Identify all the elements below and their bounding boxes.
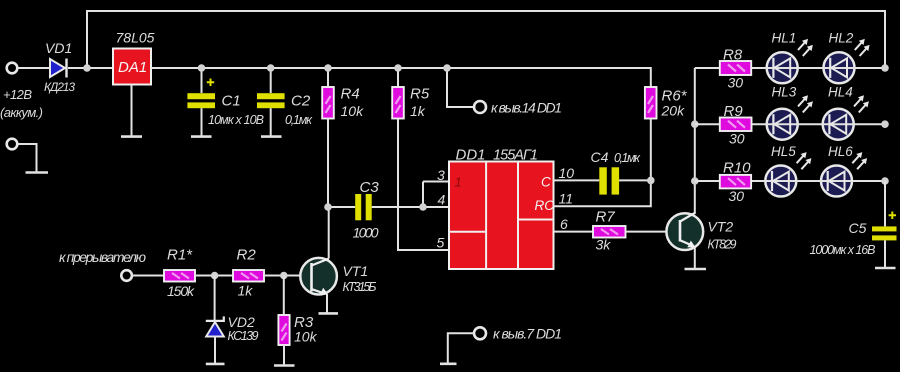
ground (X2) (26, 171, 49, 174)
svg-text:10k: 10k (294, 329, 318, 345)
svg-text:1k: 1k (410, 103, 426, 119)
ground (VD2) (206, 363, 225, 366)
svg-text:11: 11 (559, 191, 574, 207)
ground (C1) (191, 135, 212, 138)
LED HL1 symbol (772, 31, 813, 78)
svg-text:1000мк x 16В: 1000мк x 16В (810, 243, 876, 257)
wire: X1 to VD1 (18, 67, 50, 69)
svg-text:150k: 150k (167, 283, 195, 299)
resistor R6* 20k (645, 87, 688, 180)
zener diode VD2 КС139 (206, 276, 259, 364)
node: R2/R3/VT1 base junction (280, 272, 288, 280)
wire: pin 10 to C4 (554, 179, 600, 181)
node: R4/VT1/C3 junction (324, 203, 332, 211)
ground (R3) (274, 364, 295, 367)
svg-text:30: 30 (729, 131, 745, 147)
svg-text:3: 3 (437, 167, 445, 183)
svg-text:HL2: HL2 (829, 31, 854, 46)
terminal X1 +12V input (0, 63, 43, 120)
node: C2 junction (267, 64, 275, 72)
wire: C4 to R6/pin11 node (619, 179, 651, 181)
svg-text:1000: 1000 (353, 225, 379, 241)
svg-text:R9: R9 (724, 103, 744, 120)
capacitor C5 1000мк x 16В (810, 212, 897, 269)
svg-text:30: 30 (728, 75, 744, 91)
svg-text:R5: R5 (410, 86, 430, 103)
svg-text:C: C (541, 175, 551, 190)
svg-text:10: 10 (559, 165, 575, 181)
svg-text:10мк x 10В: 10мк x 10В (208, 113, 264, 127)
wire: pin 6 to R7 (554, 231, 594, 233)
node: R5 junction (394, 64, 402, 72)
node: C1 junction (198, 64, 206, 72)
terminal: к выв.7 DD1 (448, 326, 562, 364)
LED HL4 (823, 109, 854, 140)
resistor R5 1k (392, 68, 449, 250)
svg-text:R1*: R1* (167, 247, 193, 264)
svg-text:VT1: VT1 (343, 263, 369, 279)
svg-text:0,1мк: 0,1мк (285, 113, 313, 127)
terminal X2 (negative) (7, 139, 37, 173)
ground (VT2) (685, 268, 707, 271)
diode VD1 КД213 (44, 40, 75, 94)
node: right bus row1 (881, 64, 889, 72)
resistor R7 3k (593, 209, 667, 253)
LED HL2 symbol (829, 31, 870, 78)
svg-text:к выв.14 DD1: к выв.14 DD1 (491, 100, 562, 116)
svg-text:C3: C3 (360, 179, 380, 196)
wire: VD1 to DA1 (68, 67, 113, 69)
IC DD1 155АГ1 (449, 147, 554, 270)
svg-text:HL6: HL6 (828, 144, 853, 159)
ground (pin7 wire) (440, 362, 457, 365)
svg-text:5: 5 (437, 235, 445, 251)
svg-text:1: 1 (455, 175, 462, 190)
svg-text:20k: 20k (661, 103, 686, 119)
svg-text:КТ315Б: КТ315Б (343, 280, 377, 294)
node: bus row2 junction (691, 120, 699, 128)
node: R1/R2/VD2 junction (211, 272, 219, 280)
svg-text:к прерывателю: к прерывателю (59, 249, 146, 265)
svg-text:1k: 1k (238, 283, 254, 299)
node: pin14 junction (443, 64, 451, 72)
svg-text:(аккум.): (аккум.) (0, 105, 43, 120)
svg-text:78L05: 78L05 (116, 30, 155, 46)
svg-text:КТ829: КТ829 (708, 238, 737, 252)
capacitor C4 0,1мк (591, 149, 642, 195)
svg-text:R2: R2 (237, 247, 257, 264)
ground (C5) (875, 267, 896, 270)
capacitor C2 0,1мк (257, 68, 313, 137)
svg-text:HL4: HL4 (828, 85, 853, 100)
LED HL6 (821, 166, 852, 197)
svg-text:DA1: DA1 (118, 59, 147, 76)
terminal: к выв.14 DD1 (447, 68, 562, 116)
node: pin3/4 junction (419, 203, 427, 211)
node: junction VD1/top-rail (83, 64, 91, 72)
node: R6/C4/pin11 junction (647, 177, 655, 185)
resistor R4 10k (322, 68, 364, 207)
resistor R9 30 (720, 103, 752, 147)
resistor R3 10k (278, 276, 317, 366)
LED HL5 (765, 166, 796, 197)
wire: row 3 (695, 180, 885, 182)
svg-text:RC: RC (535, 198, 555, 213)
ground (VT1) (319, 312, 339, 315)
svg-text:R7: R7 (596, 209, 616, 226)
svg-text:30: 30 (729, 188, 745, 204)
node: R4 junction (324, 64, 332, 72)
resistor R10 30 (720, 160, 751, 205)
svg-text:HL3: HL3 (772, 85, 797, 100)
wire: LED left bus / VT2 collector (694, 68, 696, 214)
svg-text:C2: C2 (291, 93, 311, 110)
svg-text:0,1мк: 0,1мк (614, 151, 641, 165)
wire: C3 to DD1 pins 3/4 (372, 182, 449, 208)
wire: row 2 (695, 123, 885, 125)
svg-text:+12В: +12В (3, 87, 32, 102)
LED HL3 symbol (772, 85, 813, 135)
wire: right bus down to C5 (884, 181, 886, 226)
wire: top +12V rail (87, 11, 885, 68)
wire: signal line R4/VT1 to C3 (328, 206, 355, 208)
wire: pin 11 to node (554, 180, 651, 206)
wire: DA1 ground lead (131, 85, 133, 137)
svg-text:VD2: VD2 (228, 314, 255, 330)
node: right bus row2 (881, 120, 889, 128)
svg-text:R8: R8 (723, 47, 743, 64)
svg-text:HL5: HL5 (771, 144, 796, 159)
svg-text:6: 6 (560, 216, 568, 232)
wire: VT1 emitter lead (326, 294, 328, 313)
transistor VT1 КТ315Б (300, 258, 376, 295)
svg-text:4: 4 (438, 192, 446, 208)
svg-text:3k: 3k (596, 237, 612, 253)
voltage regulator DA1 78L05 (113, 30, 155, 85)
ground (DA1) (121, 135, 142, 138)
LED HL6 symbol (828, 144, 867, 191)
svg-text:10k: 10k (341, 103, 365, 119)
node: bus row3 junction (691, 177, 699, 185)
svg-text:R4: R4 (341, 86, 360, 103)
ground (C2) (261, 135, 282, 138)
LED HL4 symbol (828, 85, 869, 135)
LED HL5 symbol (771, 144, 811, 191)
terminal: к прерывателю (59, 249, 164, 281)
svg-text:R10: R10 (723, 160, 751, 177)
svg-text:КС139: КС139 (228, 329, 259, 343)
wire: VT1 collector riser (328, 207, 330, 259)
svg-text:C4: C4 (591, 149, 609, 165)
LED HL1 (767, 52, 798, 83)
node: right bus row3 (881, 177, 889, 185)
capacitor C3 1000 (353, 179, 380, 241)
LED HL2 (824, 52, 855, 83)
transistor VT2 КТ829 (666, 212, 736, 251)
resistor R1* 150k (164, 247, 233, 300)
svg-text:VT2: VT2 (708, 219, 734, 235)
resistor R2 1k (233, 247, 301, 299)
capacitor C1 10мк x 10В (187, 68, 264, 137)
wire: VT2 emitter lead (694, 248, 696, 270)
wire: row 1 (695, 67, 885, 69)
svg-text:к выв.7 DD1: к выв.7 DD1 (493, 326, 562, 342)
svg-text:КД213: КД213 (44, 80, 75, 94)
svg-text:C1: C1 (222, 93, 241, 110)
wire: +5V rail from DA1 to R6 (151, 68, 651, 87)
svg-text:HL1: HL1 (772, 31, 797, 46)
resistor R8 30 (720, 47, 751, 91)
svg-text:C5: C5 (849, 220, 867, 236)
LED HL3 (767, 109, 798, 140)
svg-text:VD1: VD1 (45, 40, 72, 56)
